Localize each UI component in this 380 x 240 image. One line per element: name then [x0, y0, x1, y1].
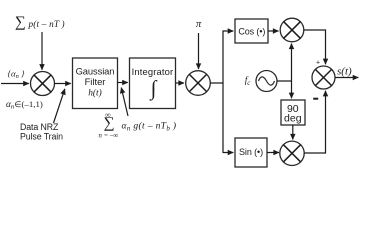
svg-text:{αn }: {αn } — [8, 69, 26, 81]
svg-text:p(t – nT ): p(t – nT ) — [28, 19, 65, 29]
svg-text:h(t): h(t) — [88, 88, 102, 99]
svg-text:Data NRZ: Data NRZ — [20, 122, 59, 132]
svg-text:∫: ∫ — [149, 76, 158, 101]
svg-text:∞: ∞ — [105, 110, 111, 119]
svg-text:αn g(t – nTb ): αn g(t – nTb ) — [122, 121, 177, 133]
svg-text:Filter: Filter — [85, 76, 106, 87]
svg-text:Sin (•): Sin (•) — [239, 147, 263, 157]
svg-text:∑: ∑ — [15, 14, 26, 31]
svg-text:αn∈(–1,1): αn∈(–1,1) — [6, 99, 43, 111]
svg-text:s(t): s(t) — [337, 66, 352, 78]
svg-text:π: π — [196, 19, 202, 30]
svg-text:fc: fc — [245, 75, 251, 87]
svg-text:n = –∞: n = –∞ — [99, 133, 119, 140]
svg-text:Pulse Train: Pulse Train — [20, 132, 63, 142]
svg-text:Cos (•): Cos (•) — [238, 27, 265, 37]
svg-text:Gaussian: Gaussian — [76, 66, 115, 77]
svg-text:+: + — [316, 59, 320, 66]
svg-text:deg: deg — [284, 113, 302, 125]
